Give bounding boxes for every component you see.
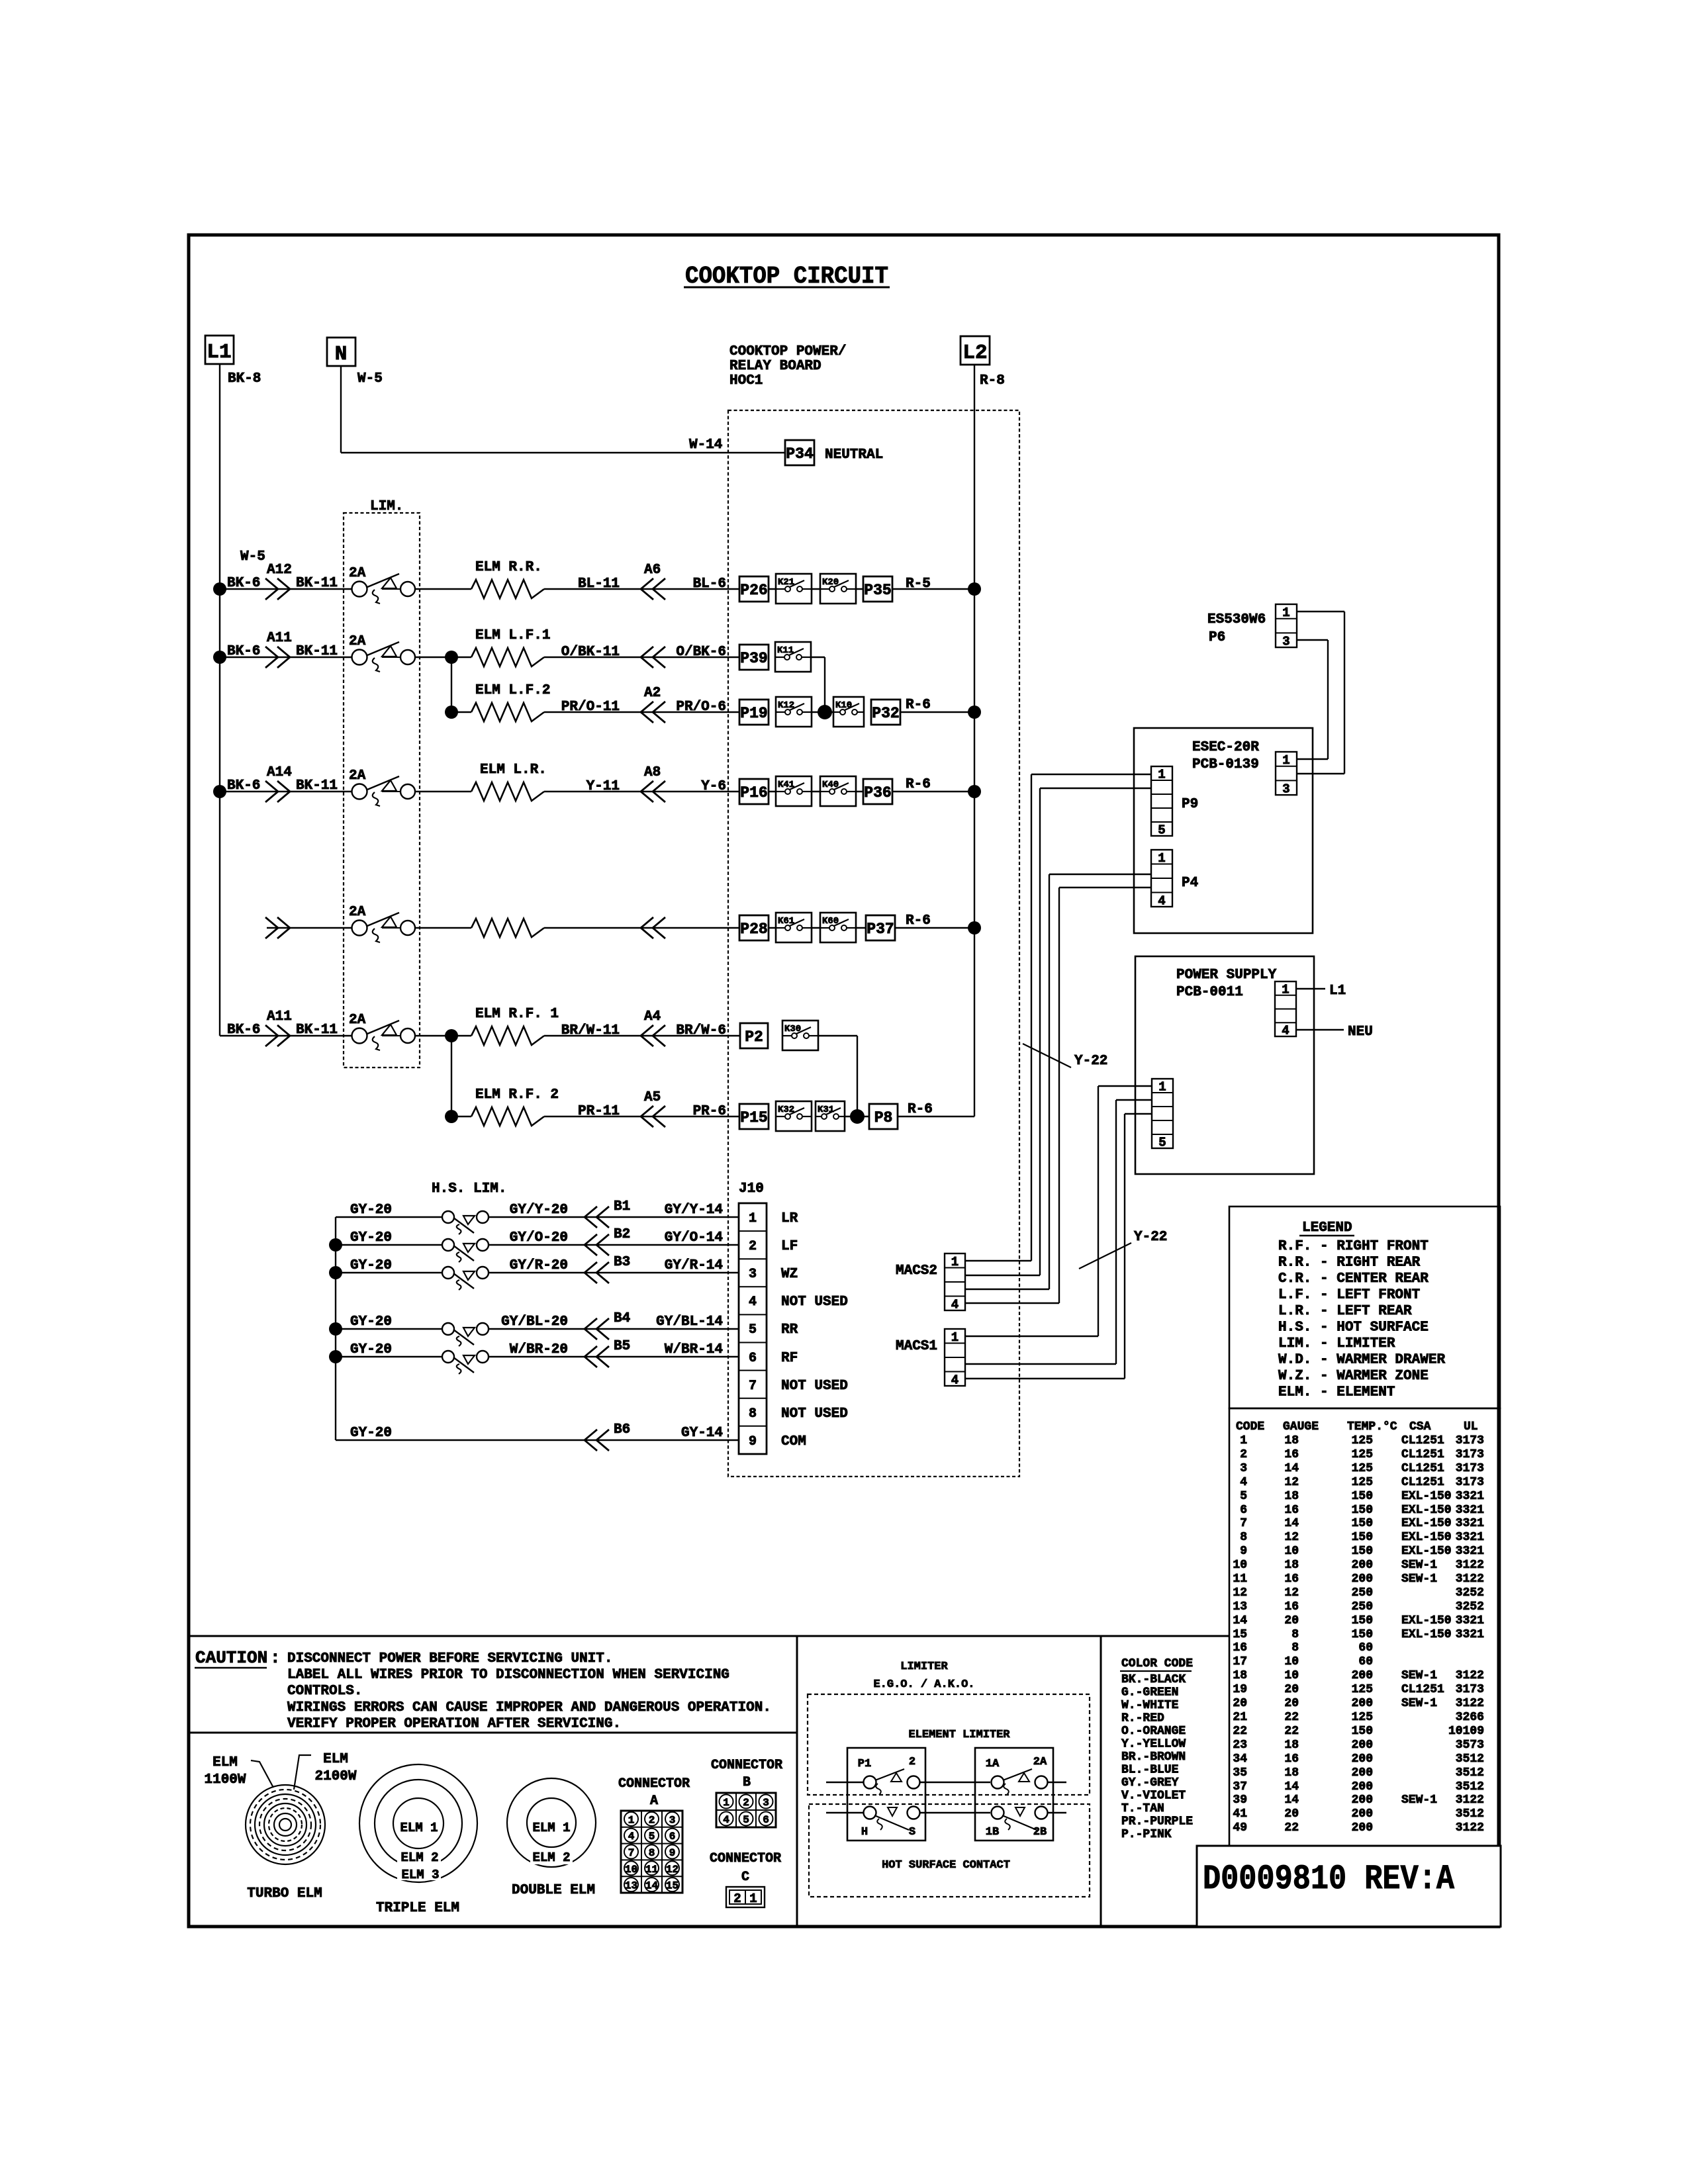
svg-text:HOT SURFACE CONTACT: HOT SURFACE CONTACT <box>882 1859 1010 1872</box>
labels ELM 1 ELM 2 <box>530 1821 573 1865</box>
limiter switch 2A <box>352 642 416 672</box>
svg-text:PR/O-6: PR/O-6 <box>676 700 726 715</box>
svg-text:5: 5 <box>1240 1490 1247 1503</box>
svg-text:GY-20: GY-20 <box>350 1314 392 1330</box>
svg-text:Y.-YELLOW: Y.-YELLOW <box>1121 1738 1186 1751</box>
label BK-6 <box>227 576 260 591</box>
svg-text:SEW-1: SEW-1 <box>1401 1697 1437 1710</box>
splice chevron B6 (left) <box>585 1430 609 1451</box>
svg-text:GY-20: GY-20 <box>350 1230 392 1246</box>
svg-text:18: 18 <box>1284 1739 1299 1752</box>
label B3 <box>614 1255 630 1270</box>
svg-text:GY/O-14: GY/O-14 <box>665 1230 723 1246</box>
svg-text:W-5: W-5 <box>357 371 383 387</box>
svg-text:RR: RR <box>781 1322 798 1338</box>
svg-text:A8: A8 <box>644 765 661 780</box>
svg-text:1100W: 1100W <box>204 1772 246 1788</box>
wire GY-20 to switch <box>336 1244 442 1246</box>
svg-text:3122: 3122 <box>1456 1821 1484 1835</box>
label BK-6 <box>227 1023 260 1038</box>
svg-text:PR/O-11: PR/O-11 <box>561 700 620 715</box>
svg-text:W.Z. - WARMER ZONE: W.Z. - WARMER ZONE <box>1278 1369 1429 1384</box>
svg-text:H.S. - HOT SURFACE: H.S. - HOT SURFACE <box>1278 1320 1429 1336</box>
element ELM L.F.1 (resistor) <box>471 648 544 666</box>
svg-text:D0009810 REV:A: D0009810 REV:A <box>1203 1860 1455 1899</box>
ESEC-20R PCB-0139 board <box>1134 728 1313 933</box>
svg-text:R.R. - RIGHT REAR: R.R. - RIGHT REAR <box>1278 1255 1421 1271</box>
svg-text:60: 60 <box>1358 1655 1373 1668</box>
svg-text:CL1251: CL1251 <box>1401 1448 1444 1461</box>
wire PR/O-11 / PR/O-6 into board <box>544 711 739 713</box>
svg-text:EXL-150: EXL-150 <box>1401 1531 1452 1544</box>
svg-text:1: 1 <box>1282 606 1289 620</box>
svg-text:1: 1 <box>1158 768 1165 782</box>
wire True from L1 bus to limiter <box>220 657 352 658</box>
svg-text:1: 1 <box>749 1891 757 1906</box>
svg-text:BK-11: BK-11 <box>296 1023 338 1038</box>
svg-text:3173: 3173 <box>1456 1462 1484 1475</box>
label H.S. LIM. <box>432 1181 506 1197</box>
HOT SURFACE dashed box <box>809 1804 1090 1897</box>
limiter LIM. dashed box <box>344 513 420 1068</box>
label A4 <box>644 1009 661 1024</box>
connector P39 <box>739 645 769 670</box>
label R-6 <box>906 777 931 792</box>
svg-text:16: 16 <box>1284 1448 1299 1461</box>
connector P9 <box>1151 766 1172 838</box>
svg-text:P36: P36 <box>864 784 891 801</box>
cooktop power relay board HOC1 outline <box>728 410 1019 1477</box>
label GY-20 <box>350 1314 392 1330</box>
svg-text:13: 13 <box>625 1880 637 1892</box>
svg-text:16: 16 <box>1284 1600 1299 1614</box>
svg-text:MACS2: MACS2 <box>896 1263 937 1279</box>
label LIM. <box>370 499 403 514</box>
svg-text:8: 8 <box>649 1847 655 1859</box>
connector P6 <box>1276 604 1297 649</box>
label L1 <box>1329 983 1346 999</box>
svg-text:3321: 3321 <box>1456 1504 1484 1517</box>
svg-text:12: 12 <box>1284 1476 1299 1489</box>
svg-text:W.D. - WARMER DRAWER: W.D. - WARMER DRAWER <box>1278 1353 1445 1368</box>
connector P16 <box>739 779 769 804</box>
wire switch to J10 <box>489 1328 739 1330</box>
svg-text:8: 8 <box>749 1406 757 1422</box>
label HOT SURFACE CONTACT <box>882 1859 1010 1872</box>
svg-text:7: 7 <box>628 1847 635 1859</box>
svg-text:9: 9 <box>1240 1545 1247 1558</box>
svg-text:3122: 3122 <box>1456 1669 1484 1682</box>
svg-text:Y-6: Y-6 <box>701 779 726 794</box>
label Y-22 (lower) <box>1134 1230 1167 1245</box>
svg-text:CONNECTOR: CONNECTOR <box>711 1758 782 1773</box>
svg-text:7: 7 <box>1240 1517 1247 1530</box>
svg-text:EXL-150: EXL-150 <box>1401 1517 1452 1530</box>
svg-text:SEW-1: SEW-1 <box>1401 1669 1437 1682</box>
connector P4 <box>1151 850 1172 908</box>
splice chevron B5 (left) <box>585 1346 609 1367</box>
label ELM R.F. 1 <box>475 1007 559 1022</box>
table rows <box>1233 1434 1484 1835</box>
node L2 (supply terminal) <box>961 336 990 365</box>
svg-text:125: 125 <box>1352 1476 1373 1489</box>
svg-text:POWER SUPPLY: POWER SUPPLY <box>1176 968 1277 983</box>
svg-text:3321: 3321 <box>1456 1545 1484 1558</box>
svg-text::: : <box>270 1648 281 1668</box>
svg-text:P8: P8 <box>874 1109 893 1126</box>
svg-text:W/BR-14: W/BR-14 <box>665 1342 723 1357</box>
svg-text:P.-PINK: P.-PINK <box>1121 1828 1172 1841</box>
svg-text:12: 12 <box>1284 1586 1299 1600</box>
label W-5 (bus) <box>240 549 265 565</box>
color code entries <box>1121 1673 1193 1841</box>
svg-text:3321: 3321 <box>1456 1490 1484 1503</box>
wire True from L1 bus to limiter <box>220 791 352 792</box>
wire limiter to element <box>415 657 471 658</box>
svg-text:ELM 1: ELM 1 <box>400 1821 438 1835</box>
svg-text:BK-8: BK-8 <box>228 371 261 387</box>
svg-text:ESEC-20R: ESEC-20R <box>1192 740 1259 755</box>
svg-text:16: 16 <box>1233 1641 1247 1655</box>
label COLOR CODE <box>1120 1657 1193 1671</box>
limiter switch box 1A/2A/1B/2B <box>975 1748 1053 1841</box>
svg-text:WZ: WZ <box>781 1267 798 1282</box>
label W/BR-20 <box>510 1342 568 1357</box>
svg-text:1: 1 <box>1240 1434 1247 1447</box>
element ELM L.R. (resistor) <box>471 782 544 801</box>
svg-text:150: 150 <box>1352 1504 1373 1517</box>
connector PS left <box>1152 1079 1173 1150</box>
label BK-11 <box>296 778 338 794</box>
svg-text:B4: B4 <box>614 1311 630 1326</box>
wire W-14 neutral horizontal <box>341 452 785 453</box>
relay K12 <box>776 697 812 727</box>
svg-text:2: 2 <box>733 1891 741 1906</box>
splice chevron (right) <box>265 647 290 668</box>
relay K40 <box>820 776 856 806</box>
junction branch R.F. <box>445 1029 458 1042</box>
svg-text:B5: B5 <box>614 1339 630 1354</box>
svg-text:14: 14 <box>1284 1462 1299 1475</box>
svg-text:49: 49 <box>1233 1821 1247 1835</box>
label COOKTOP POWER/ RELAY BOARD HOC1 <box>729 344 846 388</box>
svg-text:3512: 3512 <box>1456 1807 1484 1821</box>
wire K11 to K10 branch <box>811 657 825 712</box>
label A6 <box>644 563 661 578</box>
splice chevron B2 (left) <box>585 1234 609 1255</box>
svg-text:125: 125 <box>1352 1683 1373 1696</box>
svg-text:A11: A11 <box>267 1009 292 1024</box>
svg-text:4: 4 <box>951 1373 959 1387</box>
label W-5 <box>357 371 383 387</box>
svg-text:3: 3 <box>669 1814 676 1826</box>
label R-6 <box>908 1102 933 1117</box>
svg-text:LF: LF <box>781 1239 798 1254</box>
svg-text:WIRINGS ERRORS CAN CAUSE IMPRO: WIRINGS ERRORS CAN CAUSE IMPROPER AND DA… <box>287 1700 771 1715</box>
label A5 <box>644 1090 661 1105</box>
connector P35 <box>863 576 892 602</box>
connector P11 (ESEC right) <box>1276 752 1297 796</box>
svg-text:10: 10 <box>1284 1655 1299 1668</box>
svg-text:3122: 3122 <box>1456 1794 1484 1807</box>
svg-text:TRIPLE ELM: TRIPLE ELM <box>376 1901 459 1916</box>
svg-text:10109: 10109 <box>1448 1725 1484 1738</box>
svg-text:6: 6 <box>749 1351 757 1366</box>
svg-text:8: 8 <box>1240 1531 1247 1544</box>
label W-14 <box>689 437 722 453</box>
label BK-8 <box>228 371 261 387</box>
page border frame <box>189 235 1499 1927</box>
svg-text:LIMITER: LIMITER <box>900 1661 948 1673</box>
svg-text:22: 22 <box>1284 1821 1299 1835</box>
svg-text:S: S <box>909 1826 915 1839</box>
label GY/R-20 <box>510 1258 568 1273</box>
label BL-6 <box>693 576 726 592</box>
turbo element rings <box>246 1785 325 1864</box>
svg-text:ELM L.F.1: ELM L.F.1 <box>475 628 550 643</box>
svg-text:11: 11 <box>1233 1572 1247 1586</box>
relay K11 <box>775 642 811 672</box>
leader ELM 1100W <box>251 1760 273 1788</box>
svg-text:EXL-150: EXL-150 <box>1401 1545 1452 1558</box>
title COOKTOP CIRCUIT <box>684 263 890 290</box>
svg-text:18: 18 <box>1284 1559 1299 1572</box>
svg-text:LABEL ALL WIRES PRIOR TO DISCO: LABEL ALL WIRES PRIOR TO DISCONNECTION W… <box>287 1668 729 1683</box>
svg-text:1: 1 <box>951 1255 959 1269</box>
svg-text:N: N <box>335 343 348 366</box>
svg-text:C: C <box>741 1870 749 1885</box>
svg-text:21: 21 <box>1233 1711 1247 1724</box>
label GY/BL-14 <box>656 1314 723 1330</box>
label B2 <box>614 1227 630 1242</box>
label POWER SUPPLY PCB-0011 <box>1176 968 1277 1000</box>
wire limiter to element <box>415 927 471 929</box>
svg-text:3252: 3252 <box>1456 1600 1484 1614</box>
wire R-6 up L2 bus <box>898 1116 974 1117</box>
svg-text:W-5: W-5 <box>240 549 265 565</box>
svg-text:2A: 2A <box>1033 1756 1047 1768</box>
svg-text:A4: A4 <box>644 1009 661 1024</box>
splice chevron (right) <box>265 917 290 938</box>
svg-text:125: 125 <box>1352 1448 1373 1461</box>
svg-text:9: 9 <box>669 1847 676 1859</box>
junction R-6 on L2 bus <box>968 921 981 934</box>
svg-text:16: 16 <box>1284 1504 1299 1517</box>
svg-text:NOT USED: NOT USED <box>781 1379 848 1394</box>
svg-text:200: 200 <box>1352 1752 1373 1766</box>
label W/BR-14 <box>665 1342 723 1357</box>
svg-text:TURBO ELM: TURBO ELM <box>247 1886 322 1901</box>
svg-text:GY/Y-20: GY/Y-20 <box>510 1203 568 1218</box>
svg-text:4: 4 <box>723 1814 729 1826</box>
junction on H.S. bus <box>329 1322 342 1336</box>
wire switch to J10 <box>489 1216 739 1218</box>
label BK-6 <box>227 778 260 794</box>
svg-text:PR.-PURPLE: PR.-PURPLE <box>1121 1815 1193 1829</box>
svg-text:200: 200 <box>1352 1559 1373 1572</box>
wire P6 pin1 to ESEC P11 pin2 <box>1297 612 1344 774</box>
svg-text:R-6: R-6 <box>906 777 931 792</box>
junction on L1 bus <box>213 582 226 596</box>
label MACS2 <box>896 1263 937 1279</box>
wire True from L1 bus to limiter <box>220 1035 352 1036</box>
svg-text:B: B <box>743 1775 751 1790</box>
splice chevron (right) <box>265 1025 290 1046</box>
svg-text:CL1251: CL1251 <box>1401 1434 1444 1447</box>
junction R.F.2 <box>445 1110 458 1123</box>
svg-text:8: 8 <box>1291 1628 1299 1641</box>
svg-text:3173: 3173 <box>1456 1476 1484 1489</box>
label B4 <box>614 1311 630 1326</box>
svg-text:2: 2 <box>1240 1448 1247 1461</box>
svg-text:3122: 3122 <box>1456 1697 1484 1710</box>
svg-text:20: 20 <box>1233 1697 1247 1710</box>
label LEGEND <box>1299 1220 1354 1236</box>
svg-text:B3: B3 <box>614 1255 630 1270</box>
svg-text:COM: COM <box>781 1434 806 1449</box>
svg-text:R-8: R-8 <box>980 373 1005 388</box>
svg-text:BL-6: BL-6 <box>693 576 726 592</box>
svg-text:L.R. - LEFT REAR: L.R. - LEFT REAR <box>1278 1304 1412 1319</box>
double element rings <box>507 1778 596 1867</box>
svg-text:R.-RED: R.-RED <box>1121 1712 1164 1725</box>
svg-text:GY/BL-14: GY/BL-14 <box>656 1314 723 1330</box>
svg-text:3: 3 <box>749 1267 757 1282</box>
svg-text:CODE: CODE <box>1236 1420 1264 1433</box>
svg-text:2A: 2A <box>349 566 366 581</box>
svg-text:10: 10 <box>1233 1559 1247 1572</box>
svg-text:L.F. - LEFT FRONT: L.F. - LEFT FRONT <box>1278 1288 1420 1303</box>
splice chevron A2 (left) <box>641 702 665 723</box>
label GY/O-20 <box>510 1230 568 1246</box>
label BK-11 <box>296 1023 338 1038</box>
svg-text:16: 16 <box>1284 1572 1299 1586</box>
svg-text:GY/Y-14: GY/Y-14 <box>665 1203 723 1218</box>
svg-text:NOT USED: NOT USED <box>781 1295 848 1310</box>
label GY/Y-14 <box>665 1203 723 1218</box>
J10 pin labels <box>781 1211 848 1449</box>
svg-text:3122: 3122 <box>1456 1572 1484 1586</box>
svg-text:6: 6 <box>669 1831 676 1843</box>
label PR-6 <box>693 1104 726 1119</box>
svg-text:200: 200 <box>1352 1794 1373 1807</box>
svg-text:2A: 2A <box>349 768 366 784</box>
H.S. limiter switch B2 <box>442 1239 489 1262</box>
svg-text:3122: 3122 <box>1456 1559 1484 1572</box>
svg-text:2: 2 <box>749 1239 757 1254</box>
junction branch L.F. <box>445 651 458 664</box>
wire GY-20 to switch <box>336 1328 442 1330</box>
svg-text:O.-ORANGE: O.-ORANGE <box>1121 1725 1186 1738</box>
svg-text:G.-GREEN: G.-GREEN <box>1121 1686 1178 1700</box>
wire branch down to R.F.2 <box>451 1036 471 1116</box>
splice chevron A6 (left) <box>641 578 665 600</box>
svg-text:RF: RF <box>781 1351 798 1366</box>
limiter switch 2A <box>352 574 416 604</box>
label 2A <box>349 905 366 920</box>
svg-text:20: 20 <box>1284 1614 1299 1627</box>
svg-text:GY/R-20: GY/R-20 <box>510 1258 568 1273</box>
svg-text:ELM R.F. 2: ELM R.F. 2 <box>475 1087 559 1103</box>
label ELEMENT LIMITER <box>908 1729 1010 1741</box>
svg-text:R-6: R-6 <box>906 698 931 713</box>
svg-text:12: 12 <box>1233 1586 1247 1600</box>
svg-text:PCB-0139: PCB-0139 <box>1192 757 1259 772</box>
limiter switch box P1/2/H/S <box>847 1748 925 1841</box>
svg-text:HOC1: HOC1 <box>729 373 763 388</box>
drawing number box D0009810 REV:A <box>1197 1846 1501 1927</box>
connector P19 <box>739 700 769 725</box>
label Y-11 <box>586 779 620 794</box>
connector MACS1 <box>945 1329 965 1387</box>
junction R-6 on L2 bus <box>968 705 981 719</box>
element spare (resistor) <box>471 919 544 937</box>
label ELM 1100W <box>204 1755 246 1788</box>
svg-text:A12: A12 <box>267 563 292 578</box>
element ELM R.R. (resistor) <box>471 580 544 598</box>
svg-text:P32: P32 <box>872 705 899 722</box>
wire switch to J10 <box>489 1272 739 1273</box>
label O/BK-6 <box>676 645 726 660</box>
svg-text:3512: 3512 <box>1456 1780 1484 1794</box>
svg-text:200: 200 <box>1352 1669 1373 1682</box>
svg-text:TEMP.°C: TEMP.°C <box>1347 1420 1397 1433</box>
svg-text:5: 5 <box>1158 823 1165 838</box>
svg-text:A14: A14 <box>267 765 292 780</box>
svg-text:1: 1 <box>749 1211 757 1226</box>
svg-text:150: 150 <box>1352 1628 1373 1641</box>
svg-text:20: 20 <box>1284 1683 1299 1696</box>
svg-text:12: 12 <box>1284 1531 1299 1544</box>
svg-text:NEU: NEU <box>1348 1024 1373 1040</box>
wire gauge table box <box>1229 1408 1500 1846</box>
wire switch to J10 <box>489 1356 739 1357</box>
svg-text:GY-20: GY-20 <box>350 1342 392 1357</box>
svg-text:CL1251: CL1251 <box>1401 1462 1444 1475</box>
junction on H.S. bus <box>329 1266 342 1279</box>
splice chevron (left) <box>641 917 665 938</box>
splice chevron A5 (left) <box>641 1106 665 1127</box>
label O/BK-11 <box>561 645 620 660</box>
svg-text:BR/W-11: BR/W-11 <box>561 1023 620 1038</box>
wire GY-20 to switch <box>336 1272 442 1273</box>
svg-text:EXL-150: EXL-150 <box>1401 1504 1452 1517</box>
svg-text:9: 9 <box>749 1434 757 1449</box>
junction R-6 on L2 bus <box>968 785 981 798</box>
label Y-6 <box>701 779 726 794</box>
wires hot surface row <box>826 1812 1066 1813</box>
element ELM R.F.2 (resistor) <box>471 1107 544 1126</box>
splice chevron B4 (left) <box>585 1318 609 1340</box>
triple element rings <box>359 1764 477 1882</box>
svg-text:LIM.: LIM. <box>370 499 403 514</box>
wire P6 pin3 to ESEC P11 pin1 <box>1297 640 1328 759</box>
label CONNECTOR B <box>711 1758 782 1790</box>
svg-text:SEW-1: SEW-1 <box>1401 1559 1437 1572</box>
label BL-11 <box>578 576 620 592</box>
svg-text:1: 1 <box>951 1330 959 1345</box>
svg-text:CONNECTOR: CONNECTOR <box>618 1776 690 1792</box>
svg-text:37: 37 <box>1233 1780 1247 1794</box>
svg-text:150: 150 <box>1352 1725 1373 1738</box>
svg-text:NOT USED: NOT USED <box>781 1406 848 1422</box>
svg-text:18: 18 <box>1284 1490 1299 1503</box>
wire O/BK-11 / O/BK-6 into board <box>544 657 739 658</box>
svg-text:250: 250 <box>1352 1586 1373 1600</box>
svg-text:RELAY BOARD: RELAY BOARD <box>729 359 821 374</box>
wire K12 to K10 <box>812 711 833 713</box>
label J10 <box>739 1181 764 1197</box>
